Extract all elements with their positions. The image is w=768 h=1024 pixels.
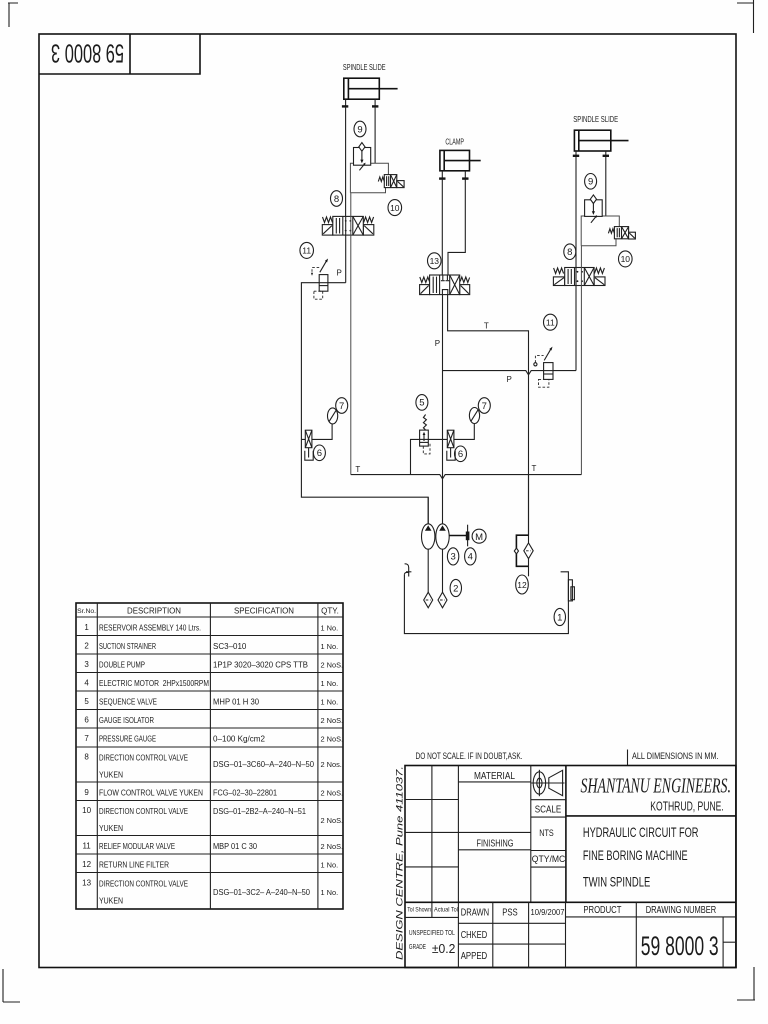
- wire isolator 6 left connections: [301, 424, 332, 440]
- svg-text:DOUBLE PUMP: DOUBLE PUMP: [99, 661, 145, 670]
- svg-text:8: 8: [334, 194, 339, 205]
- svg-text:7: 7: [482, 401, 487, 412]
- svg-text:2 NoS.: 2 NoS.: [321, 816, 344, 825]
- svg-text:SPINDLE SLIDE: SPINDLE SLIDE: [343, 63, 386, 72]
- svg-text:1 No.: 1 No.: [321, 888, 339, 897]
- svg-text:4: 4: [84, 679, 89, 688]
- balloon 4: [465, 548, 476, 565]
- cylinder ports ticks right cylinder: [573, 151, 609, 157]
- svg-text:DSG–01–2B2–A–240–N–51: DSG–01–2B2–A–240–N–51: [213, 807, 307, 816]
- balloon 13: [428, 253, 442, 269]
- flow control valve 9 left: [354, 143, 371, 171]
- svg-text:59 8000 3: 59 8000 3: [641, 931, 719, 961]
- svg-text:RESERVOIR ASSEMBLY 140 Ltrs.: RESERVOIR ASSEMBLY 140 Ltrs.: [99, 624, 201, 633]
- wire A line through valve 8 left: [345, 216, 347, 235]
- svg-text:2: 2: [84, 642, 89, 651]
- svg-text:4: 4: [468, 552, 473, 563]
- sequence valve 5: [420, 415, 430, 454]
- svg-text:PRODUCT: PRODUCT: [583, 905, 621, 916]
- double pump 3: [422, 497, 450, 549]
- svg-text:DIRECTION CONTROL VALVE: DIRECTION CONTROL VALVE: [99, 754, 188, 763]
- balloon 8 right: [564, 244, 576, 260]
- cylinder clamp: [440, 150, 481, 170]
- wire cylinder C right port to flow module right: [605, 157, 607, 217]
- svg-text:11: 11: [302, 246, 311, 256]
- svg-text:2 NoS.: 2 NoS.: [321, 789, 344, 798]
- balloon 5: [416, 395, 428, 411]
- svg-text:11: 11: [82, 842, 91, 851]
- balloon 10 right: [619, 251, 633, 267]
- svg-text:GRADE: GRADE: [409, 942, 426, 951]
- svg-text:DIRECTION CONTROL VALVE: DIRECTION CONTROL VALVE: [99, 807, 188, 816]
- cylinder right spindle slide: [574, 130, 628, 151]
- balloon 8 left: [331, 191, 343, 207]
- svg-text:1: 1: [84, 623, 89, 632]
- suction lines: [428, 549, 442, 592]
- wire isolator 6 right to gauge: [454, 424, 474, 440]
- svg-text:MATERIAL: MATERIAL: [474, 771, 515, 782]
- title strip box top-left: [39, 34, 200, 74]
- svg-text:5: 5: [84, 697, 89, 706]
- svg-text:SUCTION STRAINER: SUCTION STRAINER: [99, 642, 156, 651]
- corner mark bottom-right: [737, 967, 755, 1000]
- svg-text:±0.2: ±0.2: [432, 941, 456, 956]
- svg-text:DIRECTION CONTROL VALVE: DIRECTION CONTROL VALVE: [99, 880, 188, 889]
- balloon 11 left: [300, 242, 314, 258]
- suction strainer 2 (left): [424, 592, 433, 608]
- svg-text:T: T: [532, 464, 537, 473]
- wire sequence valve right port to isolator right: [428, 438, 447, 440]
- svg-text:5: 5: [419, 398, 424, 409]
- balloon 7 left: [336, 398, 348, 414]
- svg-text:P: P: [337, 269, 342, 278]
- balloon 6 left: [313, 445, 325, 461]
- svg-text:FINE BORING MACHINE: FINE BORING MACHINE: [583, 847, 688, 863]
- svg-text:Tol Shown: Tol Shown: [407, 907, 431, 914]
- svg-text:FCG–02–30–22801: FCG–02–30–22801: [213, 789, 277, 798]
- wire cylinder A left port to valve 8 A-port: [345, 107, 347, 216]
- svg-text:3: 3: [84, 660, 89, 669]
- svg-text:12: 12: [82, 860, 91, 869]
- first angle projection symbol: [531, 770, 564, 796]
- svg-text:PRESSURE GAUGE: PRESSURE GAUGE: [99, 735, 156, 744]
- relief modular valve 11 left: [311, 259, 328, 300]
- svg-text:DRAWN: DRAWN: [461, 908, 490, 919]
- svg-text:11: 11: [546, 318, 555, 328]
- svg-text:13: 13: [82, 879, 91, 888]
- svg-text:10: 10: [390, 203, 400, 213]
- svg-text:7: 7: [339, 401, 344, 412]
- gauge isolator 6 right: [447, 430, 455, 460]
- svg-text:8: 8: [84, 753, 89, 762]
- corner mark top-right: [737, 0, 754, 33]
- svg-text:6: 6: [317, 448, 322, 459]
- svg-text:13: 13: [430, 256, 440, 266]
- cylinder ports ticks left cylinder: [342, 99, 379, 107]
- wire clamp right port to valve 13: [448, 180, 465, 276]
- svg-text:9: 9: [84, 788, 89, 797]
- svg-text:0–100 Kg/cm2: 0–100 Kg/cm2: [213, 735, 266, 744]
- svg-text:DRAWING NUMBER: DRAWING NUMBER: [646, 905, 717, 916]
- svg-text:ELECTRIC MOTOR 2HPx1500RPM: ELECTRIC MOTOR 2HPx1500RPM: [99, 679, 209, 688]
- svg-text:7: 7: [84, 734, 89, 743]
- wire sequence valve left port to T main: [411, 439, 420, 474]
- svg-text:1 No.: 1 No.: [321, 642, 339, 651]
- motor shaft and coupling: [449, 525, 469, 547]
- svg-text:DO NOT SCALE. IF IN DOUBT,ASK.: DO NOT SCALE. IF IN DOUBT,ASK.: [416, 751, 523, 761]
- relief modular valve 11 right: [534, 347, 553, 388]
- wire valve 13 T-port to filter drop: [448, 295, 529, 536]
- electric motor 4: [472, 529, 486, 543]
- svg-text:1 No.: 1 No.: [321, 698, 339, 707]
- balloon 9 right: [585, 174, 597, 190]
- svg-text:6: 6: [84, 716, 89, 725]
- svg-text:SC3–010: SC3–010: [213, 642, 247, 651]
- svg-text:10: 10: [621, 254, 631, 264]
- solenoid valve 10 right: [608, 227, 635, 239]
- svg-text:9: 9: [588, 177, 593, 188]
- svg-text:RELIEF MODULAR VALVE: RELIEF MODULAR VALVE: [99, 842, 175, 851]
- pressure gauge 7 left: [328, 408, 338, 424]
- svg-text:6: 6: [458, 449, 463, 460]
- svg-text:DESIGN CENTRE, Pune 411037.: DESIGN CENTRE, Pune 411037.: [395, 766, 405, 960]
- svg-text:SPINDLE SLIDE: SPINDLE SLIDE: [573, 115, 618, 124]
- direction control valve 8 left (DSG-01-3C60): [322, 216, 374, 235]
- svg-text:HYDRAULIC CIRCUIT FOR: HYDRAULIC CIRCUIT FOR: [583, 824, 699, 840]
- wire P line right circuit with bridge over T drop: [443, 371, 577, 375]
- svg-text:QTY/MC: QTY/MC: [532, 854, 566, 865]
- svg-text:DSG–01–3C2– A–240–N–50: DSG–01–3C2– A–240–N–50: [213, 888, 311, 897]
- wire P line left circuit: [301, 283, 428, 524]
- svg-text:APPED: APPED: [461, 951, 488, 962]
- svg-text:2 NoS.: 2 NoS.: [321, 716, 344, 725]
- flow control module enclosure right: [581, 216, 619, 246]
- svg-text:QTY.: QTY.: [321, 607, 339, 616]
- suction strainer 2 (right): [438, 592, 447, 608]
- balloon 11 right: [544, 314, 558, 330]
- svg-text:8: 8: [567, 247, 572, 258]
- pressure gauge 7 right: [469, 408, 479, 424]
- balloon 1: [554, 608, 565, 625]
- reservoir 1 tank outline: [404, 572, 574, 634]
- svg-text:1 No.: 1 No.: [321, 624, 339, 633]
- svg-text:1 No.: 1 No.: [321, 861, 339, 870]
- svg-text:MHP 01 H 30: MHP 01 H 30: [213, 698, 260, 707]
- gauge isolator 6 left: [305, 430, 313, 460]
- svg-text:P: P: [435, 339, 440, 348]
- breather: [405, 564, 412, 577]
- flow control module enclosure left: [350, 163, 388, 193]
- balloon 7 right: [478, 398, 490, 414]
- direction control valve 13 (DSG-01-3C2): [420, 275, 470, 295]
- svg-text:GAUGE ISOLATOR: GAUGE ISOLATOR: [99, 716, 154, 725]
- svg-text:PSS: PSS: [502, 908, 518, 919]
- svg-text:TWIN SPINDLE: TWIN SPINDLE: [583, 873, 650, 889]
- svg-text:1: 1: [557, 612, 562, 623]
- svg-text:YUKEN: YUKEN: [99, 897, 123, 906]
- svg-text:SEQUENCE VALVE: SEQUENCE VALVE: [99, 698, 157, 707]
- svg-text:10: 10: [82, 806, 91, 815]
- return line filter 12: [514, 475, 533, 577]
- wire valve 8 right T-port down to T main: [580, 246, 582, 475]
- cylinder left spindle slide: [344, 78, 398, 99]
- svg-text:RETURN LINE FILTER: RETURN LINE FILTER: [99, 861, 169, 870]
- svg-text:FLOW CONTROL VALVE YUKEN: FLOW CONTROL VALVE YUKEN: [99, 789, 203, 798]
- svg-text:NTS: NTS: [539, 828, 554, 839]
- corner mark top-left: [8, 3, 18, 27]
- svg-text:P: P: [507, 375, 512, 384]
- wire A line through valve 8 right: [575, 268, 577, 286]
- svg-text:SHANTANU ENGINEERS.: SHANTANU ENGINEERS.: [581, 774, 732, 798]
- flow control valve 9 right: [585, 195, 603, 223]
- balloon 12: [516, 575, 529, 594]
- wire valve 8 right P-port down: [575, 286, 577, 371]
- wire valve 13 P-port down to pump 2: [442, 295, 444, 524]
- wire valve 8 left T-port down to T main: [350, 193, 352, 475]
- svg-text:2 NoS.: 2 NoS.: [321, 735, 344, 744]
- svg-text:ALL DIMENSIONS IN MM.: ALL DIMENSIONS IN MM.: [632, 751, 719, 761]
- balloon 3: [447, 548, 458, 565]
- svg-text:3: 3: [450, 552, 455, 563]
- svg-text:2 NoS.: 2 NoS.: [321, 661, 344, 670]
- svg-text:DSG–01–3C60–A–240–N–50: DSG–01–3C60–A–240–N–50: [213, 760, 315, 769]
- wire clamp left port to valve 13: [441, 180, 443, 276]
- balloon 2: [450, 579, 461, 596]
- wire cylinder C left port to valve 8 right A-port: [575, 157, 577, 268]
- svg-text:YUKEN: YUKEN: [99, 771, 123, 780]
- svg-text:DESCRIPTION: DESCRIPTION: [127, 607, 181, 616]
- svg-text:YUKEN: YUKEN: [99, 824, 123, 833]
- svg-text:KOTHRUD, PUNE.: KOTHRUD, PUNE.: [650, 800, 724, 814]
- balloon 9 left: [354, 121, 366, 137]
- svg-text:T: T: [355, 465, 360, 474]
- svg-text:CHKED: CHKED: [461, 930, 488, 941]
- wire cylinder A right port to flow valve module: [374, 107, 376, 163]
- svg-text:2 Nos.: 2 Nos.: [321, 760, 342, 769]
- corner mark bottom-left: [3, 969, 20, 1002]
- svg-text:UNSPECIFIED TOL: UNSPECIFIED TOL: [409, 928, 455, 937]
- cylinder ports ticks clamp: [439, 171, 468, 180]
- short divider above title block: [627, 750, 629, 766]
- direction control valve 8 right (DSG-01-3C60): [553, 268, 605, 286]
- svg-text:T: T: [484, 321, 489, 330]
- balloon 10 left: [388, 200, 402, 216]
- svg-text:2 NoS.: 2 NoS.: [321, 842, 344, 851]
- title block grid: [405, 766, 736, 968]
- svg-text:Sr.No.: Sr.No.: [77, 608, 96, 615]
- svg-text:10/9/2007: 10/9/2007: [531, 907, 565, 917]
- svg-text:CLAMP: CLAMP: [445, 137, 464, 146]
- svg-text:1 No.: 1 No.: [321, 679, 339, 688]
- wire valve 8 left P-port down: [345, 235, 347, 283]
- svg-text:2: 2: [453, 583, 458, 594]
- svg-text:SCALE: SCALE: [535, 805, 562, 816]
- svg-text:SPECIFICATION: SPECIFICATION: [234, 607, 294, 616]
- svg-text:FINISHING: FINISHING: [477, 839, 514, 850]
- svg-text:59 8000 3: 59 8000 3: [51, 39, 124, 69]
- svg-text:12: 12: [517, 580, 527, 590]
- solenoid valve 10 left: [378, 175, 404, 188]
- svg-text:M: M: [475, 532, 483, 543]
- balloon 6 right: [455, 446, 467, 462]
- wire T main return line with bridge at pump2 riser: [351, 475, 582, 479]
- svg-text:Actual Tol: Actual Tol: [434, 907, 458, 914]
- svg-text:1P1P 3020–3020 CPS TTB: 1P1P 3020–3020 CPS TTB: [213, 661, 308, 670]
- svg-text:MBP 01 C 30: MBP 01 C 30: [213, 842, 258, 851]
- svg-text:9: 9: [357, 124, 362, 135]
